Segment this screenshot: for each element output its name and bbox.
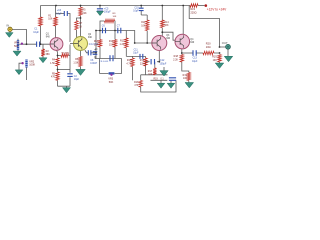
svg-text:R21: R21 [191, 8, 196, 11]
svg-text:1K: 1K [79, 26, 82, 29]
svg-text:10µF: 10µF [74, 79, 80, 81]
svg-text:2.2K: 2.2K [173, 58, 178, 61]
svg-text:15K: 15K [109, 43, 114, 46]
svg-text:R18: R18 [134, 82, 139, 84]
svg-text:R14: R14 [164, 22, 169, 24]
svg-text:100µF: 100µF [104, 11, 111, 14]
svg-text:10Ω: 10Ω [206, 45, 211, 49]
svg-text:220Ω: 220Ω [191, 12, 197, 15]
svg-text:C11: C11 [134, 50, 139, 52]
svg-text:100µF: 100µF [160, 62, 167, 65]
svg-text:R6 39K: R6 39K [62, 52, 70, 54]
svg-text:22K: 22K [140, 63, 145, 66]
svg-text:10µF: 10µF [192, 61, 198, 63]
svg-text:100K: 100K [29, 64, 35, 67]
svg-text:56K: 56K [164, 25, 169, 27]
svg-text:C10: C10 [134, 8, 139, 10]
svg-text:22K: 22K [82, 12, 87, 15]
svg-text:R19: R19 [183, 75, 188, 77]
svg-text:OUT: OUT [222, 41, 228, 45]
svg-text:C9 0.005: C9 0.005 [99, 61, 109, 63]
svg-text:68K: 68K [46, 53, 51, 56]
svg-text:R19: R19 [154, 78, 159, 80]
svg-text:10K: 10K [113, 16, 117, 18]
svg-text:10K: 10K [48, 18, 53, 20]
svg-text:1.5K: 1.5K [50, 62, 55, 65]
svg-text:10µF: 10µF [56, 13, 62, 15]
svg-text:+C3: +C3 [57, 10, 62, 12]
svg-text:4.7K: 4.7K [126, 63, 131, 66]
svg-text:+12V to +24V: +12V to +24V [207, 8, 227, 12]
svg-text:1.2K: 1.2K [119, 43, 124, 46]
svg-text:100: 100 [213, 59, 218, 62]
svg-text:10µF: 10µF [33, 31, 39, 34]
svg-text:C13: C13 [193, 58, 198, 60]
svg-text:10µF: 10µF [133, 11, 139, 13]
svg-text:R20: R20 [206, 41, 211, 45]
svg-text:R11: R11 [141, 22, 146, 24]
svg-text:100: 100 [148, 73, 153, 76]
svg-text:10µF: 10µF [133, 53, 139, 55]
svg-text:470: 470 [51, 76, 56, 79]
svg-text:0.0047: 0.0047 [90, 63, 98, 65]
svg-text:50K: 50K [109, 81, 114, 84]
svg-text:47K: 47K [134, 85, 139, 87]
svg-text:10K: 10K [94, 43, 99, 46]
svg-text:IN: IN [6, 23, 9, 27]
svg-text:1.5K: 1.5K [73, 61, 78, 64]
svg-text:10K: 10K [141, 25, 146, 27]
svg-text:50K: 50K [14, 45, 19, 48]
